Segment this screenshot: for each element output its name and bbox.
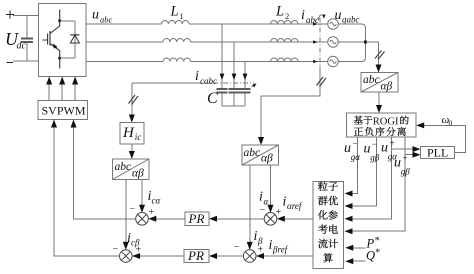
svg-text:abc: abc: [115, 161, 132, 173]
wire i_alpha: [270, 165, 272, 208]
wire PR alpha out: [153, 218, 185, 220]
wire i_alpharef: [281, 218, 313, 220]
node grid bus tap: [364, 40, 367, 43]
wire phase a: [86, 23, 162, 25]
inductor L2 phase b: [271, 39, 299, 42]
wire capacitor tap a: [221, 24, 223, 89]
svg-text:SVPWM: SVPWM: [42, 104, 86, 118]
svg-text:+: +: [403, 153, 408, 163]
svg-text:αref: αref: [287, 201, 303, 211]
capacitor C phase c: [240, 88, 251, 90]
svg-text:PR: PR: [188, 211, 205, 226]
wire beta to SVPWM: [54, 124, 120, 256]
svg-text:0: 0: [449, 119, 453, 128]
svg-text:PLL: PLL: [427, 146, 448, 160]
wire Q-star: [350, 260, 365, 262]
inductor L2 phase c: [271, 58, 299, 61]
wire ugab to ROGI: [378, 92, 380, 109]
wire alpha to SVPWM: [74, 124, 136, 219]
wire source c to bus: [338, 58, 365, 62]
wire junction beta right to PR: [214, 255, 244, 257]
block abc-alphabeta center: [242, 145, 279, 165]
wire u_gbeta-plus: [349, 137, 405, 231]
wire i_betaref: [261, 255, 314, 257]
AC source phase b: [328, 37, 339, 48]
svg-text:+: +: [390, 138, 395, 148]
inductor L2 phase a: [271, 21, 299, 24]
svg-text:abc: abc: [100, 15, 113, 25]
svg-text:cabc: cabc: [200, 76, 217, 86]
wire Hic to abc-ab: [131, 144, 133, 155]
svg-text:abc: abc: [363, 74, 380, 86]
svg-text:αβ: αβ: [261, 152, 273, 164]
svg-text:ic: ic: [135, 132, 142, 142]
wire capacitor common bus: [222, 105, 245, 107]
svg-text:βref: βref: [272, 245, 289, 255]
inverter bridge box: [39, 4, 87, 77]
svg-text:αβ: αβ: [132, 167, 144, 179]
summing junction alpha left: [136, 213, 149, 226]
wire DC top: [13, 15, 39, 17]
wire i_cabc to Hic: [131, 83, 133, 118]
wire source b to bus: [338, 41, 365, 43]
AC source phase a: [328, 19, 339, 30]
block abc-alphabeta right: [361, 73, 398, 93]
wire P-star: [350, 247, 365, 249]
svg-text:abc: abc: [244, 147, 261, 159]
svg-text:−: −: [372, 139, 377, 149]
svg-text:1: 1: [180, 11, 184, 21]
wire grid bus: [365, 28, 367, 58]
capacitor C phase a: [217, 88, 228, 90]
svg-text:i: i: [195, 69, 199, 84]
block SVPWM: [38, 101, 88, 120]
wire PR beta out: [137, 255, 184, 257]
wire i_beta: [249, 165, 251, 246]
svg-text:u: u: [92, 8, 99, 23]
AC source phase c: [328, 56, 339, 67]
DC source plus terminal: [6, 11, 14, 19]
inductor L1 phase c: [163, 58, 191, 61]
wire IGBT to diode bottom: [60, 57, 75, 59]
svg-text:−: −: [113, 244, 119, 255]
svg-text:gα: gα: [351, 152, 361, 162]
block abc-alphabeta left: [113, 159, 150, 180]
inductor L1 phase b: [163, 39, 191, 42]
wire SVPWM gate drive 2: [61, 80, 63, 101]
inductor L1 phase a: [162, 21, 190, 24]
diode freewheeling: [74, 21, 76, 58]
wire source a to bus: [338, 24, 365, 28]
measurement line i_abc: [319, 18, 321, 67]
wire phase c to grid: [191, 61, 328, 63]
wire phase b to grid: [191, 41, 328, 43]
capacitor C phase b: [229, 88, 240, 90]
wire capacitor tap c: [244, 62, 246, 89]
svg-text:L: L: [170, 4, 179, 20]
svg-text:PR: PR: [187, 248, 204, 263]
svg-text:abc: abc: [306, 15, 319, 25]
wire SVPWM gate drive 1: [48, 80, 50, 101]
wire u_gbeta-plus to PLL: [405, 154, 416, 156]
block PLL: [421, 147, 455, 159]
wire DC bottom: [13, 60, 39, 62]
svg-text:ROGI: ROGI: [373, 116, 399, 127]
wire PLL omega0 feedback: [421, 125, 466, 152]
wire i_cbeta: [125, 180, 127, 246]
svg-text:i: i: [254, 229, 258, 244]
svg-text:C: C: [207, 90, 218, 107]
svg-text:gβ: gβ: [370, 153, 380, 163]
svg-text:−: −: [260, 205, 266, 216]
svg-text:−: −: [130, 204, 136, 215]
svg-text:i: i: [283, 195, 287, 210]
summing junction beta left: [120, 250, 133, 263]
block H_ic: [120, 123, 144, 145]
wire phase b: [86, 41, 163, 43]
svg-text:−: −: [234, 242, 240, 253]
svg-text:i: i: [269, 238, 273, 253]
svg-text:gabc: gabc: [342, 15, 360, 25]
capacitor DC-link: [26, 16, 28, 62]
svg-text:H: H: [122, 125, 135, 141]
summing junction beta right: [243, 250, 256, 263]
svg-text:i: i: [259, 190, 263, 205]
svg-text:gβ: gβ: [401, 167, 411, 177]
wire bus to abc-ab right: [366, 42, 379, 68]
summing junction alpha right: [264, 213, 277, 226]
node collector dot: [58, 19, 61, 22]
wire u_galpha-plus: [349, 137, 392, 219]
svg-text:L: L: [275, 4, 284, 20]
svg-text:−: −: [353, 139, 358, 149]
wire u_galpha-plus to PLL: [392, 148, 417, 150]
bundle slash Hic feed: [129, 95, 139, 105]
svg-text:Q: Q: [366, 249, 375, 263]
svg-text:u: u: [335, 8, 342, 23]
node emitter dot: [58, 57, 61, 60]
wire i_calpha: [141, 180, 143, 209]
svg-text:2: 2: [285, 11, 289, 21]
svg-text:i: i: [301, 8, 305, 23]
block ROGI separation: [347, 113, 417, 137]
bundle slash iabc feed: [317, 77, 327, 87]
block PR beta: [184, 249, 209, 262]
wire IGBT to diode top: [60, 20, 75, 22]
DC source minus terminal: [7, 62, 14, 64]
measurement line i_cabc: [132, 82, 213, 84]
wire phase a to grid: [189, 23, 328, 25]
svg-text:αβ: αβ: [381, 80, 393, 92]
svg-text:cα: cα: [152, 196, 161, 206]
wire capacitor tap b: [233, 42, 235, 89]
svg-text:*: *: [375, 248, 380, 259]
transistor IGBT: [43, 10, 60, 69]
svg-text:+: +: [276, 207, 282, 218]
svg-text:*: *: [375, 236, 380, 247]
wire phase c: [86, 61, 163, 63]
block PR alpha: [185, 212, 209, 225]
wire junction alpha right to PR: [214, 218, 265, 220]
wire u_galpha-minus: [349, 137, 358, 194]
wire SVPWM gate drive 3: [74, 80, 76, 101]
bundle slash ug feed: [375, 51, 385, 60]
svg-text:+: +: [149, 207, 155, 218]
wire i_abc to abc-ab center: [261, 67, 320, 141]
block PSO reference current: [313, 182, 344, 269]
wire u_gbeta-minus: [349, 137, 377, 206]
